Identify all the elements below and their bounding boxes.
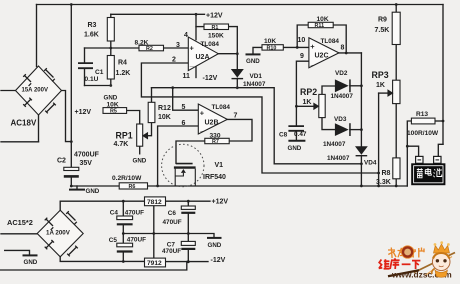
- svg-text:100R/10W: 100R/10W: [407, 130, 439, 137]
- wire U2A pin4 supply drop: [195, 14, 197, 39]
- node R8 on rail: [395, 185, 398, 188]
- wire rail gnd stub: [76, 186, 78, 189]
- battery terminal plus: [416, 156, 423, 163]
- watermark round badge: [401, 246, 413, 258]
- resistor R5: [103, 108, 127, 114]
- svg-text:AC15*2: AC15*2: [7, 218, 33, 227]
- wire R11 left: [297, 25, 308, 47]
- capacitor C5 electrolytic: [117, 243, 133, 247]
- svg-text:35V: 35V: [80, 160, 93, 167]
- potentiometer RP3 wiper arrow: [388, 90, 393, 96]
- svg-text:R3: R3: [88, 22, 97, 29]
- svg-text:R12: R12: [158, 105, 171, 112]
- wire RP3 wiper arm: [379, 92, 388, 94]
- ground bar mid rail: [208, 237, 221, 239]
- svg-text:+: +: [310, 42, 315, 51]
- wire R3 bottom stub: [110, 41, 112, 48]
- svg-text:C5: C5: [109, 237, 118, 244]
- svg-text:470UF: 470UF: [127, 237, 146, 244]
- resistor R6: [119, 183, 147, 189]
- node battery plus: [406, 145, 409, 148]
- resistor R11: [308, 22, 333, 27]
- wire below VD4 to rail: [360, 156, 362, 186]
- regulator 7912: [145, 258, 166, 267]
- resistor R1: [204, 24, 229, 30]
- watermark slogan glyph pian: [419, 248, 425, 258]
- wire rail right end up to battery plus node: [406, 146, 408, 186]
- node mid rail on C4C5 column: [122, 232, 125, 235]
- resistor R2: [139, 45, 164, 51]
- node LINE1 pin5 drop: [171, 86, 174, 89]
- svg-text:U2B: U2B: [205, 120, 219, 127]
- svg-text:10K: 10K: [264, 38, 276, 45]
- svg-text:_: _: [199, 123, 205, 132]
- svg-text:C6: C6: [168, 210, 177, 217]
- watermark slogan glyph wo2 (behind badge): [410, 248, 417, 258]
- transistor V1 dashed circle: [162, 144, 204, 186]
- resistor R10: [262, 45, 283, 50]
- svg-text:3: 3: [176, 42, 180, 49]
- svg-text:R6: R6: [129, 184, 136, 190]
- battery label glyph xu: [417, 168, 423, 178]
- svg-text:C4: C4: [110, 209, 119, 216]
- wire C7 stubs: [187, 234, 189, 262]
- svg-text:10K: 10K: [107, 101, 119, 108]
- watermark slogan glyph wo1: [388, 248, 424, 259]
- svg-text:1K: 1K: [303, 99, 312, 106]
- wire R12 bottom to RP1 wiper: [148, 123, 152, 136]
- svg-text:R1: R1: [212, 25, 219, 31]
- wire C1 to R4 bottom: [85, 85, 112, 87]
- wire AC input 2: [1, 141, 39, 143]
- wire C2 bottom to rail: [70, 177, 72, 186]
- watermark brand glyph yi: [402, 263, 411, 265]
- bridge rectifier B1 15A 200V: [16, 66, 62, 115]
- svg-text:1K: 1K: [376, 82, 385, 89]
- wire bridge1 bottom stub: [38, 115, 40, 142]
- resistor R13: [411, 118, 435, 124]
- svg-text:1A 200V: 1A 200V: [46, 230, 71, 237]
- node R11 on output: [345, 52, 348, 55]
- battery body: [411, 163, 445, 185]
- node C7 bottom tap: [187, 260, 190, 263]
- wire RP2 bottom to VD3 anode: [322, 118, 335, 130]
- svg-text:0.47: 0.47: [294, 131, 307, 138]
- potentiometer RP2 body: [319, 94, 325, 117]
- battery terminal minus: [434, 156, 441, 163]
- wire U2A pin2 feedback LINE2: [141, 63, 378, 173]
- wire C8 bottom stub: [295, 132, 297, 141]
- bridge B1 diode ticks: [23, 68, 56, 113]
- node C5 on 7912 rail: [122, 260, 125, 263]
- wire U2C output: [339, 52, 362, 54]
- wire VD1 cathode stub: [236, 79, 238, 88]
- svg-text:7: 7: [234, 112, 238, 119]
- node VD4/LINE1 tee: [360, 162, 363, 165]
- node RP3 wiper on rail: [377, 185, 380, 188]
- node R9 on rail A: [395, 3, 398, 6]
- node R13 right on edge vertical: [442, 120, 445, 123]
- node VD3 cathode: [360, 128, 363, 131]
- svg-text:1N4007: 1N4007: [331, 93, 354, 100]
- svg-text:GND: GND: [133, 157, 147, 164]
- wire bridge2 top to 7812: [60, 201, 144, 210]
- wire bottom rail left of R6: [71, 185, 119, 187]
- wire 7812 output +12V: [166, 200, 211, 202]
- svg-text:1N4007: 1N4007: [323, 141, 346, 148]
- svg-text:TL084: TL084: [201, 41, 220, 48]
- svg-text:U2A: U2A: [196, 54, 210, 61]
- svg-text:8: 8: [341, 44, 345, 51]
- svg-text:+: +: [200, 109, 205, 118]
- svg-text:C1: C1: [95, 69, 104, 76]
- wire VD1 anode stub: [236, 54, 238, 69]
- svg-text:R11: R11: [315, 23, 325, 29]
- regulator 7812: [145, 197, 166, 206]
- node diode chain on rail: [360, 185, 363, 188]
- wire AC2 input 1: [1, 233, 37, 235]
- wire U2B pin5: [173, 88, 199, 111]
- svg-text:VD2: VD2: [335, 70, 348, 77]
- wire R9 to RP3: [395, 45, 397, 81]
- wire R13 left stub: [407, 121, 411, 146]
- node mid rail C6/C7: [187, 232, 190, 235]
- wire rail A to bridge1 top: [36, 5, 38, 67]
- svg-text:3.3K: 3.3K: [376, 179, 391, 186]
- ground bar AC2: [24, 254, 37, 256]
- capacitor C6 electrolytic: [181, 206, 195, 209]
- svg-text:R10: R10: [267, 46, 277, 52]
- svg-text:10K: 10K: [158, 114, 171, 121]
- svg-text:10K: 10K: [317, 16, 329, 23]
- svg-text:VD3: VD3: [334, 116, 347, 123]
- svg-text:AC18V: AC18V: [11, 119, 37, 128]
- wire R12 top stub: [151, 88, 153, 103]
- watermark mascot crown: [434, 244, 450, 253]
- svg-text:TL084: TL084: [321, 38, 340, 45]
- transistor V1 drain leg: [194, 169, 196, 186]
- resistor R7: [205, 138, 229, 143]
- wire +12V rail B: [111, 13, 205, 15]
- svg-text:+12V: +12V: [206, 12, 223, 19]
- wire battery plus lead: [407, 146, 418, 156]
- wire C6 stubs: [187, 201, 189, 233]
- transistor V1 channel bar: [174, 166, 196, 168]
- node C2 on rail: [70, 185, 73, 188]
- op-amp U2C: [309, 38, 339, 68]
- node railB junction: [195, 13, 198, 16]
- svg-text:7812: 7812: [147, 199, 162, 206]
- bridge rectifier B2 1A 200V: [37, 210, 83, 257]
- svg-text:R9: R9: [378, 16, 387, 23]
- svg-text:GND: GND: [246, 58, 260, 65]
- watermark brand glyph ku: [390, 258, 400, 269]
- wire C1 bottom: [84, 69, 86, 86]
- svg-text:RP2: RP2: [300, 87, 317, 97]
- node railA/leftvert junction: [70, 3, 73, 6]
- watermark sword handle stroke: [388, 270, 419, 276]
- svg-text:470UF: 470UF: [163, 219, 182, 226]
- svg-text:4700UF: 4700UF: [74, 152, 100, 159]
- node C4 tap: [122, 200, 125, 203]
- capacitor C2 electrolytic: [64, 167, 79, 170]
- svg-text:GND: GND: [86, 188, 100, 195]
- potentiometer RP3 body: [393, 80, 400, 103]
- svg-text:+12V: +12V: [75, 109, 92, 116]
- node pin6 on rail: [156, 185, 159, 188]
- svg-text:0.2R/10W: 0.2R/10W: [112, 175, 142, 182]
- wire U2A pin11 stub: [195, 66, 197, 77]
- diode VD3: [335, 123, 349, 136]
- wire R1 right stub down to output: [229, 27, 238, 54]
- wire AC input 1: [1, 90, 16, 92]
- resistor R3: [107, 18, 114, 42]
- svg-text:GND: GND: [288, 145, 302, 152]
- wire bridge2 bottom to 7912: [60, 257, 144, 262]
- ground bar under rail: [70, 189, 84, 191]
- wire U2C pin9 to C8: [296, 61, 309, 125]
- svg-text:9: 9: [300, 53, 304, 60]
- watermark mascot arm: [432, 269, 435, 275]
- svg-text:IRF540: IRF540: [203, 174, 226, 181]
- node U2A output: [236, 52, 239, 55]
- wire R7 to V1 gate: [176, 141, 205, 163]
- transistor V1 gate plate: [176, 163, 193, 165]
- wire left long vertical to C2: [70, 5, 72, 168]
- capacitor C8: [288, 126, 304, 131]
- svg-text:4: 4: [184, 32, 188, 39]
- wire R8 bottom stub: [395, 179, 397, 186]
- svg-text:_: _: [310, 57, 316, 66]
- potentiometer RP1 body: [137, 124, 143, 146]
- node pin10/R11: [296, 46, 299, 49]
- wire U2C pin10: [283, 46, 309, 48]
- svg-text:_: _: [189, 59, 195, 68]
- svg-text:R5: R5: [110, 109, 117, 115]
- wire VD3 cathode to chain: [350, 129, 362, 131]
- svg-text:GND: GND: [208, 242, 222, 249]
- svg-text:R2: R2: [146, 46, 153, 52]
- diode VD2: [335, 79, 349, 92]
- watermark dzsc logo: [379, 241, 455, 279]
- node C6 tap top: [187, 200, 190, 203]
- wire R9 top stub: [395, 5, 397, 13]
- wire regulator common pins: [153, 206, 155, 258]
- wire R3 top stub: [110, 14, 112, 17]
- svg-text:-12V: -12V: [211, 257, 226, 264]
- wire C4 top stub: [122, 201, 124, 216]
- bridge B2 diode ticks: [45, 211, 78, 256]
- op-amp U2B: [198, 104, 227, 134]
- wire battery minus lead: [438, 144, 443, 156]
- wire U2A output: [218, 53, 237, 55]
- wire RP1 bottom stub: [139, 146, 141, 154]
- svg-text:RP3: RP3: [372, 70, 389, 80]
- wire R2 to pin3: [164, 47, 189, 49]
- svg-text:1.2K: 1.2K: [116, 70, 131, 77]
- svg-text:R8: R8: [382, 170, 391, 177]
- node DC+ junction at y141.5: [70, 140, 73, 143]
- wire R4 stubs: [110, 48, 112, 86]
- svg-text:+: +: [190, 43, 195, 52]
- watermark brand glyph xia: [412, 261, 420, 269]
- svg-text:1N4007: 1N4007: [327, 155, 350, 162]
- wire RP3 body bottom to R8: [395, 104, 397, 158]
- wire diode chain vertical: [360, 53, 362, 146]
- svg-text:470UF: 470UF: [162, 248, 181, 255]
- svg-text:RP1: RP1: [116, 131, 133, 141]
- diode VD4: [355, 146, 368, 155]
- resistor R4: [107, 56, 114, 80]
- svg-text:+12V: +12V: [212, 199, 229, 206]
- potentiometer RP1 wiper arrow: [143, 133, 148, 139]
- svg-text:R13: R13: [416, 111, 428, 118]
- svg-text:5: 5: [182, 104, 186, 111]
- svg-text:VD4: VD4: [364, 159, 377, 166]
- svg-text:7.5K: 7.5K: [375, 27, 390, 34]
- capacitor C7 electrolytic: [181, 241, 195, 245]
- wire 7912 output -12V: [166, 261, 209, 263]
- svg-text:-12V: -12V: [203, 75, 218, 82]
- node RP3 wiper/LINE2 tee: [377, 172, 380, 175]
- svg-text:150K: 150K: [208, 33, 224, 40]
- svg-text:10: 10: [298, 37, 306, 44]
- diode VD1: [231, 69, 244, 78]
- svg-text:4.7K: 4.7K: [114, 141, 129, 148]
- wire right edge vertical: [442, 5, 444, 145]
- wire R1 left stub: [196, 26, 204, 28]
- wire RP2 top to VD2 anode: [322, 86, 335, 94]
- svg-text:2: 2: [172, 56, 176, 63]
- wire C5 bottom stub: [122, 252, 124, 261]
- node RP2 wiper on pin9 line: [295, 105, 298, 108]
- wire R13 right stub: [435, 120, 443, 122]
- wire R10 left to gnd: [253, 47, 262, 53]
- wire RP2 wiper arm: [296, 105, 314, 107]
- resistor R12: [148, 102, 155, 122]
- svg-text:R7: R7: [212, 139, 219, 145]
- battery label glyph dian: [425, 168, 431, 175]
- resistor R9: [392, 12, 400, 44]
- watermark mascot face: [432, 253, 450, 271]
- wire U2B pin6 to rail: [158, 126, 199, 186]
- node R4/C1 gnd junction: [109, 84, 112, 87]
- wire bridge1 right vertex to DC node: [62, 91, 72, 142]
- ground bar R10: [247, 53, 260, 55]
- node LINE1 VD1: [236, 86, 239, 89]
- svg-text:7912: 7912: [147, 260, 162, 267]
- svg-text:6: 6: [182, 120, 186, 127]
- wire long bottom AC return: [1, 262, 187, 270]
- wire U2B pin7 output to R7: [227, 119, 252, 141]
- svg-text:1.6K: 1.6K: [84, 32, 99, 39]
- svg-text:15A 200V: 15A 200V: [22, 87, 48, 93]
- wire R5 to RP1 top: [127, 111, 140, 125]
- transistor V1 source leg: [174, 169, 176, 186]
- svg-text:C8: C8: [279, 131, 288, 138]
- watermark mascot body: [435, 270, 447, 277]
- wire +V top rail A: [37, 4, 444, 6]
- svg-text:V1: V1: [215, 162, 224, 169]
- svg-text:TL084: TL084: [212, 104, 231, 111]
- wire C1 top: [84, 48, 86, 63]
- wire node R3/R4/R2/C1: [85, 47, 140, 49]
- svg-text:GND: GND: [24, 259, 38, 266]
- potentiometer RP2 wiper arrow: [314, 104, 319, 110]
- node VD2 cathode: [360, 84, 363, 87]
- wire RP3 wiper down to rail: [378, 93, 380, 186]
- svg-text:C2: C2: [57, 158, 66, 165]
- wire bottom rail right of R6: [148, 185, 408, 187]
- wire mid gnd rail: [123, 234, 214, 238]
- wire C4 to C5: [122, 225, 124, 243]
- node R2 left junction: [109, 47, 112, 50]
- svg-text:U2C: U2C: [315, 53, 329, 60]
- watermark stick: [414, 253, 455, 273]
- capacitor C4 electrolytic: [117, 216, 133, 220]
- wire R11 right: [333, 25, 346, 53]
- resistor R8: [393, 158, 400, 179]
- svg-text:470UF: 470UF: [125, 209, 144, 216]
- svg-text:1N4007: 1N4007: [243, 81, 266, 88]
- svg-text:R4: R4: [118, 60, 127, 67]
- transistor V1 substrate arrow: [181, 169, 186, 173]
- op-amp U2A: [188, 37, 218, 71]
- battery label glyph chi: [433, 168, 441, 177]
- watermark slogan glyph you: [398, 248, 406, 258]
- svg-text:VD1: VD1: [250, 73, 263, 80]
- node mid rail reg pin: [152, 232, 155, 235]
- watermark brand glyph wei: [379, 258, 421, 269]
- wire AC2 input 2 with gnd: [5, 250, 30, 255]
- wire sense line LINE1 R12/pin5/VD1: [152, 88, 362, 164]
- ground bar C8: [289, 140, 304, 142]
- wire VD2 cathode to chain: [350, 85, 362, 87]
- svg-text:11: 11: [183, 73, 191, 80]
- capacitor C1: [78, 63, 93, 68]
- svg-text:0.1U: 0.1U: [85, 76, 99, 83]
